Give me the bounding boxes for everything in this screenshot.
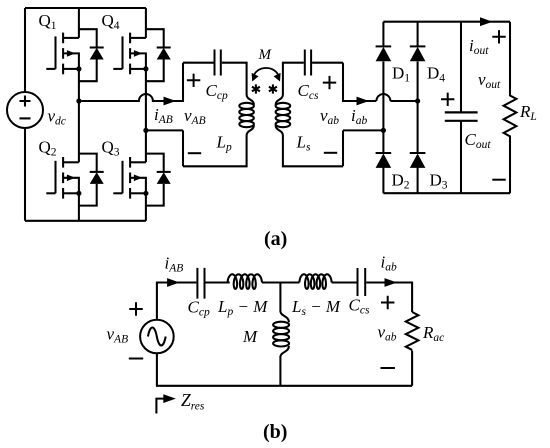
svg-text:M: M — [242, 327, 258, 346]
svg-text:Lp − M: Lp − M — [217, 297, 268, 318]
svg-text:(b): (b) — [263, 421, 287, 443]
svg-text:(a): (a) — [264, 228, 287, 250]
svg-text:M: M — [258, 47, 273, 63]
svg-text:Ls − M: Ls − M — [291, 297, 341, 318]
